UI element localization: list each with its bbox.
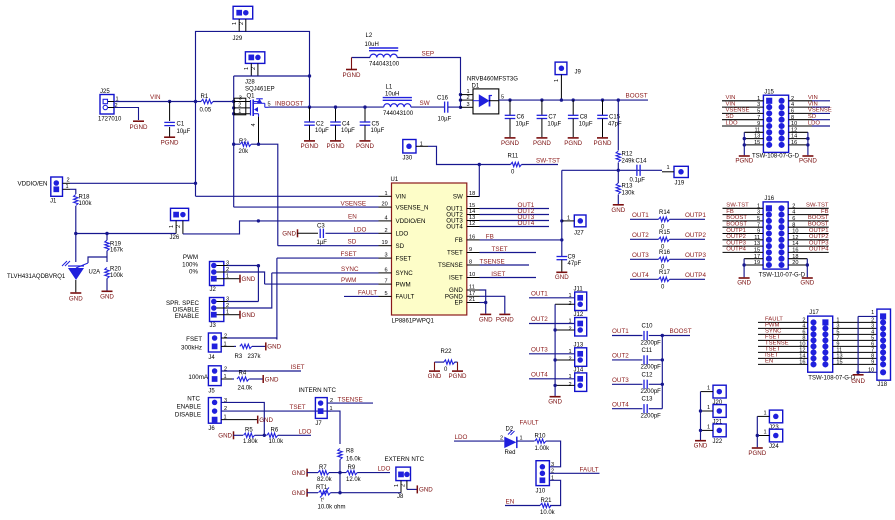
svg-text:PGND: PGND bbox=[327, 143, 345, 150]
svg-text:1: 1 bbox=[567, 216, 570, 222]
svg-text:1.00k: 1.00k bbox=[535, 446, 551, 452]
svg-text:VSENSE: VSENSE bbox=[341, 200, 367, 207]
svg-text:FSET: FSET bbox=[341, 251, 357, 258]
svg-text:PWM: PWM bbox=[183, 254, 198, 261]
svg-text:3: 3 bbox=[551, 462, 554, 468]
svg-text:GND: GND bbox=[100, 294, 114, 301]
svg-text:INTERN NTC: INTERN NTC bbox=[299, 387, 337, 394]
svg-text:FSET: FSET bbox=[186, 336, 202, 343]
svg-text:1727010: 1727010 bbox=[98, 117, 122, 123]
svg-text:BOOST: BOOST bbox=[808, 215, 829, 221]
svg-text:ISET: ISET bbox=[291, 364, 305, 371]
svg-text:J25: J25 bbox=[100, 89, 110, 95]
svg-text:J8: J8 bbox=[397, 494, 404, 500]
svg-text:10.0k: 10.0k bbox=[540, 510, 556, 516]
svg-text:OUT4: OUT4 bbox=[612, 401, 629, 408]
svg-text:R22: R22 bbox=[441, 349, 453, 355]
svg-text:TSET: TSET bbox=[492, 246, 508, 253]
svg-text:LDO: LDO bbox=[396, 231, 409, 238]
svg-text:t°: t° bbox=[321, 498, 324, 504]
svg-text:7: 7 bbox=[385, 279, 388, 285]
svg-text:C8: C8 bbox=[580, 115, 588, 121]
svg-text:L1: L1 bbox=[386, 85, 393, 91]
svg-text:FAULT: FAULT bbox=[580, 466, 599, 473]
svg-text:BOOST: BOOST bbox=[808, 222, 829, 228]
svg-text:LDO: LDO bbox=[726, 120, 739, 126]
svg-text:PWM: PWM bbox=[396, 281, 411, 288]
svg-text:OUTP2: OUTP2 bbox=[809, 234, 829, 240]
svg-text:PGND: PGND bbox=[501, 140, 519, 147]
svg-text:VIN: VIN bbox=[726, 101, 736, 107]
svg-text:R8: R8 bbox=[346, 449, 354, 455]
svg-text:SD: SD bbox=[808, 114, 816, 120]
svg-text:GND: GND bbox=[555, 274, 569, 281]
svg-text:J2: J2 bbox=[210, 287, 217, 293]
svg-text:U2A: U2A bbox=[89, 270, 101, 276]
svg-text:R13: R13 bbox=[622, 184, 634, 190]
svg-text:GND: GND bbox=[428, 373, 442, 380]
svg-text:20k: 20k bbox=[239, 149, 250, 155]
svg-text:R14: R14 bbox=[659, 210, 671, 216]
svg-text:LP8861PWPQ1: LP8861PWPQ1 bbox=[392, 319, 435, 325]
svg-text:BOOST: BOOST bbox=[670, 328, 692, 335]
svg-text:R20: R20 bbox=[110, 267, 122, 273]
svg-text:EN: EN bbox=[348, 214, 357, 221]
svg-text:PGND: PGND bbox=[130, 124, 148, 131]
svg-text:10.0k ohm: 10.0k ohm bbox=[318, 505, 346, 511]
svg-text:10uH: 10uH bbox=[385, 92, 399, 98]
svg-text:10.0k: 10.0k bbox=[269, 439, 285, 445]
svg-text:BOOST: BOOST bbox=[726, 215, 747, 221]
svg-text:OUT2: OUT2 bbox=[632, 232, 649, 239]
svg-text:2200pF: 2200pF bbox=[641, 414, 662, 420]
svg-text:47pF: 47pF bbox=[568, 261, 582, 267]
svg-text:C7: C7 bbox=[548, 115, 556, 121]
svg-text:J12: J12 bbox=[574, 312, 584, 318]
svg-text:100k: 100k bbox=[79, 201, 93, 207]
svg-text:0%: 0% bbox=[189, 269, 198, 276]
svg-text:R19: R19 bbox=[110, 241, 122, 247]
svg-text:4: 4 bbox=[251, 123, 257, 126]
svg-text:PGND: PGND bbox=[799, 158, 817, 165]
svg-text:1: 1 bbox=[244, 67, 250, 70]
svg-text:GND: GND bbox=[694, 443, 708, 450]
svg-text:J7: J7 bbox=[315, 421, 322, 427]
svg-text:OUT1: OUT1 bbox=[632, 212, 649, 219]
svg-text:SEP: SEP bbox=[422, 50, 435, 57]
svg-text:LDO: LDO bbox=[455, 434, 468, 441]
svg-text:GND: GND bbox=[242, 276, 256, 283]
svg-text:2: 2 bbox=[239, 22, 245, 25]
svg-text:1: 1 bbox=[420, 141, 423, 147]
svg-text:FB: FB bbox=[455, 237, 463, 244]
svg-text:R9: R9 bbox=[348, 465, 356, 471]
svg-text:OUTP3: OUTP3 bbox=[809, 240, 829, 246]
svg-text:744043100: 744043100 bbox=[369, 62, 400, 68]
svg-text:EXTERN NTC: EXTERN NTC bbox=[385, 456, 425, 463]
svg-text:J6: J6 bbox=[208, 426, 215, 432]
svg-text:SD: SD bbox=[348, 239, 357, 246]
svg-text:18: 18 bbox=[469, 191, 475, 197]
svg-text:TLVH431AQDBVRQ1: TLVH431AQDBVRQ1 bbox=[7, 274, 66, 280]
svg-text:OUT1: OUT1 bbox=[612, 328, 629, 335]
svg-text:J28: J28 bbox=[245, 80, 255, 86]
svg-text:0.05: 0.05 bbox=[200, 108, 212, 114]
svg-text:100%: 100% bbox=[182, 262, 198, 269]
svg-text:19: 19 bbox=[382, 240, 388, 246]
svg-text:82.0k: 82.0k bbox=[317, 477, 333, 483]
svg-text:OUTP4: OUTP4 bbox=[685, 272, 706, 279]
svg-text:10: 10 bbox=[469, 272, 475, 278]
svg-text:PGND: PGND bbox=[533, 140, 551, 147]
svg-text:OUTP1: OUTP1 bbox=[726, 228, 746, 234]
svg-text:R4: R4 bbox=[239, 371, 247, 377]
svg-text:11: 11 bbox=[469, 285, 475, 291]
svg-text:GND: GND bbox=[69, 296, 83, 303]
svg-text:SD: SD bbox=[726, 114, 734, 120]
svg-text:J3: J3 bbox=[210, 323, 217, 329]
svg-text:OUT3: OUT3 bbox=[531, 346, 548, 353]
svg-text:10µF: 10µF bbox=[341, 128, 355, 134]
svg-text:10µF: 10µF bbox=[438, 117, 452, 123]
svg-text:EN: EN bbox=[765, 359, 773, 365]
svg-text:GND: GND bbox=[267, 344, 281, 351]
svg-text:1: 1 bbox=[554, 79, 560, 82]
svg-text:1: 1 bbox=[238, 109, 241, 115]
svg-text:C2: C2 bbox=[316, 121, 324, 127]
svg-text:4: 4 bbox=[385, 215, 388, 221]
svg-text:R5: R5 bbox=[245, 428, 253, 434]
svg-text:GND: GND bbox=[737, 280, 751, 287]
svg-text:PWM: PWM bbox=[341, 277, 356, 284]
svg-text:20: 20 bbox=[382, 202, 388, 208]
svg-text:9: 9 bbox=[871, 360, 874, 366]
svg-text:3: 3 bbox=[239, 96, 242, 102]
svg-text:C1: C1 bbox=[177, 122, 185, 128]
svg-text:SQJ461EP: SQJ461EP bbox=[245, 87, 275, 93]
svg-text:J13: J13 bbox=[574, 342, 584, 348]
svg-text:FB: FB bbox=[821, 209, 829, 215]
svg-text:J10: J10 bbox=[536, 489, 546, 495]
svg-text:2: 2 bbox=[400, 484, 406, 487]
svg-text:PGND: PGND bbox=[301, 143, 319, 150]
svg-text:2200pF: 2200pF bbox=[641, 389, 662, 395]
svg-text:DISABLE: DISABLE bbox=[175, 412, 201, 419]
svg-text:PGND: PGND bbox=[356, 143, 374, 150]
svg-text:21: 21 bbox=[469, 297, 475, 303]
svg-text:SW: SW bbox=[420, 100, 430, 107]
svg-text:16.0k: 16.0k bbox=[346, 457, 362, 463]
svg-text:10µF: 10µF bbox=[547, 121, 561, 127]
svg-text:GND: GND bbox=[259, 417, 273, 424]
svg-text:SW: SW bbox=[453, 194, 463, 201]
svg-text:GND: GND bbox=[292, 490, 306, 497]
svg-text:NTC: NTC bbox=[187, 396, 200, 403]
svg-text:1: 1 bbox=[707, 425, 710, 431]
svg-text:5: 5 bbox=[385, 291, 388, 297]
svg-text:R3: R3 bbox=[235, 354, 243, 360]
svg-text:J14: J14 bbox=[574, 367, 584, 373]
svg-text:PGND: PGND bbox=[735, 158, 753, 165]
svg-text:ENABLE: ENABLE bbox=[175, 313, 199, 320]
svg-text:VIN: VIN bbox=[808, 101, 818, 107]
svg-text:LDO: LDO bbox=[808, 120, 821, 126]
svg-text:SYNC: SYNC bbox=[341, 266, 359, 273]
svg-text:GND: GND bbox=[282, 231, 296, 238]
svg-text:SD: SD bbox=[396, 243, 405, 250]
svg-text:2: 2 bbox=[467, 95, 470, 101]
svg-text:OUTP1: OUTP1 bbox=[685, 212, 706, 219]
svg-text:167k: 167k bbox=[110, 248, 124, 254]
svg-text:10µF: 10µF bbox=[371, 128, 385, 134]
svg-text:3: 3 bbox=[467, 102, 470, 108]
svg-text:OUT4: OUT4 bbox=[632, 272, 649, 279]
svg-text:16: 16 bbox=[469, 234, 475, 240]
svg-text:2200pF: 2200pF bbox=[641, 365, 662, 371]
svg-text:R16: R16 bbox=[659, 250, 671, 256]
svg-text:1: 1 bbox=[232, 22, 238, 25]
svg-text:C6: C6 bbox=[517, 115, 525, 121]
svg-text:OUTP4: OUTP4 bbox=[809, 247, 829, 253]
svg-text:FAULT: FAULT bbox=[396, 294, 415, 301]
svg-text:SW-TST: SW-TST bbox=[726, 203, 749, 209]
svg-text:J22: J22 bbox=[713, 439, 723, 445]
svg-text:VDDIO/EN: VDDIO/EN bbox=[18, 181, 48, 188]
svg-text:OUT2: OUT2 bbox=[612, 353, 629, 360]
svg-text:FB: FB bbox=[726, 209, 734, 215]
svg-text:OUT4: OUT4 bbox=[446, 224, 463, 231]
svg-text:BOOST: BOOST bbox=[726, 222, 747, 228]
svg-text:1: 1 bbox=[394, 484, 400, 487]
svg-text:J19: J19 bbox=[675, 181, 685, 187]
svg-text:0.1µF: 0.1µF bbox=[630, 178, 646, 184]
svg-text:J11: J11 bbox=[574, 287, 584, 293]
svg-text:1: 1 bbox=[764, 430, 767, 436]
svg-text:ENABLE: ENABLE bbox=[177, 404, 201, 411]
svg-text:10µF: 10µF bbox=[177, 129, 191, 135]
svg-text:J29: J29 bbox=[233, 36, 243, 42]
svg-text:TSW-108-07-G-D: TSW-108-07-G-D bbox=[752, 153, 800, 159]
svg-text:TSENSE: TSENSE bbox=[480, 259, 505, 266]
svg-text:100mA: 100mA bbox=[188, 374, 208, 381]
svg-text:130k: 130k bbox=[622, 190, 636, 196]
svg-text:J18: J18 bbox=[877, 382, 887, 388]
svg-text:1: 1 bbox=[385, 191, 388, 197]
svg-text:PGND: PGND bbox=[161, 140, 179, 147]
svg-text:2200pF: 2200pF bbox=[641, 340, 662, 346]
svg-text:10uH: 10uH bbox=[365, 42, 379, 48]
svg-text:100k: 100k bbox=[110, 273, 124, 279]
svg-text:GND: GND bbox=[479, 317, 493, 324]
svg-text:C9: C9 bbox=[568, 255, 576, 261]
svg-text:ISET: ISET bbox=[449, 275, 463, 282]
svg-text:OUTP2: OUTP2 bbox=[726, 234, 746, 240]
svg-text:TSW-108-07-G-D: TSW-108-07-G-D bbox=[808, 376, 856, 382]
svg-text:OUT4: OUT4 bbox=[531, 371, 548, 378]
svg-text:J9: J9 bbox=[575, 70, 582, 76]
svg-text:PGND: PGND bbox=[748, 450, 766, 457]
svg-text:R18: R18 bbox=[79, 195, 91, 201]
svg-text:VIN: VIN bbox=[808, 95, 818, 101]
svg-text:10µF: 10µF bbox=[579, 121, 593, 127]
svg-text:12: 12 bbox=[469, 221, 475, 227]
svg-text:2: 2 bbox=[385, 228, 388, 234]
svg-text:TSENSE: TSENSE bbox=[438, 262, 463, 269]
svg-text:OUT4: OUT4 bbox=[518, 220, 535, 227]
svg-text:3: 3 bbox=[385, 253, 388, 259]
svg-text:300kHz: 300kHz bbox=[181, 345, 202, 352]
svg-text:C15: C15 bbox=[609, 115, 621, 121]
svg-text:8: 8 bbox=[469, 260, 472, 266]
svg-text:GND: GND bbox=[851, 378, 865, 385]
svg-text:OUT1: OUT1 bbox=[531, 290, 548, 297]
svg-text:10µF: 10µF bbox=[315, 128, 329, 134]
svg-text:47pF: 47pF bbox=[608, 121, 622, 127]
svg-text:J17: J17 bbox=[809, 310, 819, 316]
svg-text:OUTP3: OUTP3 bbox=[726, 240, 746, 246]
svg-text:Q1: Q1 bbox=[247, 94, 256, 100]
svg-text:R7: R7 bbox=[319, 465, 327, 471]
svg-text:OUTP3: OUTP3 bbox=[685, 252, 706, 259]
svg-text:249k: 249k bbox=[622, 158, 636, 164]
svg-text:D2: D2 bbox=[506, 427, 514, 433]
svg-text:C12: C12 bbox=[642, 372, 654, 378]
svg-text:GND: GND bbox=[218, 433, 232, 440]
svg-text:INBOOST: INBOOST bbox=[275, 100, 303, 107]
svg-text:1µF: 1µF bbox=[317, 240, 328, 246]
svg-text:U1: U1 bbox=[391, 177, 399, 183]
svg-text:OUT3: OUT3 bbox=[632, 252, 649, 259]
svg-text:SYNC: SYNC bbox=[396, 270, 414, 277]
svg-text:ISET: ISET bbox=[491, 271, 505, 278]
svg-text:R17: R17 bbox=[659, 270, 671, 276]
svg-text:VSENSE: VSENSE bbox=[726, 108, 750, 114]
svg-text:FAULT: FAULT bbox=[520, 420, 539, 427]
svg-text:237k: 237k bbox=[248, 354, 262, 360]
svg-text:R21: R21 bbox=[541, 498, 553, 504]
svg-text:2: 2 bbox=[251, 67, 257, 70]
svg-text:J23: J23 bbox=[769, 425, 779, 431]
svg-text:J30: J30 bbox=[403, 156, 413, 162]
svg-text:C10: C10 bbox=[642, 324, 654, 330]
svg-text:OUTP1: OUTP1 bbox=[809, 228, 829, 234]
svg-text:VSENSE_N: VSENSE_N bbox=[396, 204, 429, 211]
svg-text:R6: R6 bbox=[271, 428, 279, 434]
svg-text:OUTP4: OUTP4 bbox=[726, 247, 746, 253]
svg-text:PGND: PGND bbox=[343, 72, 361, 79]
svg-text:TSW-110-07-G-D: TSW-110-07-G-D bbox=[759, 272, 806, 278]
svg-text:2: 2 bbox=[500, 436, 503, 442]
svg-text:GND: GND bbox=[548, 399, 562, 406]
svg-text:EN: EN bbox=[506, 499, 515, 506]
svg-text:PGND: PGND bbox=[496, 317, 514, 324]
svg-text:2: 2 bbox=[67, 178, 70, 184]
svg-text:1: 1 bbox=[667, 165, 670, 171]
svg-text:1: 1 bbox=[871, 310, 874, 316]
svg-text:GND: GND bbox=[292, 470, 306, 477]
svg-text:J26: J26 bbox=[170, 235, 180, 241]
svg-text:VIN: VIN bbox=[150, 94, 161, 101]
svg-text:R11: R11 bbox=[508, 153, 519, 159]
svg-text:1: 1 bbox=[707, 405, 710, 411]
svg-text:10µF: 10µF bbox=[516, 121, 530, 127]
svg-text:R12: R12 bbox=[622, 152, 634, 158]
svg-text:J15: J15 bbox=[764, 89, 774, 95]
svg-text:J5: J5 bbox=[208, 389, 215, 395]
svg-text:VDDIO/EN: VDDIO/EN bbox=[396, 218, 426, 225]
svg-text:L2: L2 bbox=[366, 33, 373, 39]
svg-text:GND: GND bbox=[265, 376, 279, 383]
svg-text:FSET: FSET bbox=[396, 255, 412, 262]
svg-text:1: 1 bbox=[764, 411, 767, 417]
svg-text:2: 2 bbox=[176, 225, 182, 228]
svg-text:Red: Red bbox=[505, 450, 516, 456]
svg-text:12.0k: 12.0k bbox=[346, 477, 362, 483]
svg-text:J16: J16 bbox=[764, 196, 774, 202]
svg-text:BOOST: BOOST bbox=[626, 92, 648, 99]
svg-text:24.0k: 24.0k bbox=[238, 386, 254, 392]
svg-text:PGND: PGND bbox=[564, 140, 582, 147]
svg-text:TSENSE: TSENSE bbox=[338, 397, 363, 404]
svg-text:C11: C11 bbox=[642, 348, 653, 354]
svg-text:J21: J21 bbox=[713, 420, 723, 426]
svg-text:NRVB460MFST3G: NRVB460MFST3G bbox=[467, 77, 518, 83]
svg-text:RT1: RT1 bbox=[316, 485, 328, 491]
svg-text:OUT3: OUT3 bbox=[612, 377, 629, 384]
svg-text:FAULT: FAULT bbox=[358, 289, 377, 296]
svg-text:C16: C16 bbox=[437, 96, 449, 102]
svg-text:TSET: TSET bbox=[290, 404, 306, 411]
svg-text:C5: C5 bbox=[372, 121, 380, 127]
svg-text:J27: J27 bbox=[574, 231, 584, 237]
svg-text:R15: R15 bbox=[659, 230, 671, 236]
svg-text:TSET: TSET bbox=[447, 250, 463, 257]
svg-text:R1: R1 bbox=[201, 94, 209, 100]
svg-text:1: 1 bbox=[169, 225, 175, 228]
svg-text:744043100: 744043100 bbox=[383, 111, 414, 117]
svg-text:SW-TST: SW-TST bbox=[806, 203, 829, 209]
svg-text:1.80k: 1.80k bbox=[243, 439, 259, 445]
svg-text:OUT2: OUT2 bbox=[531, 316, 548, 323]
svg-text:FB: FB bbox=[486, 233, 494, 240]
svg-text:EP: EP bbox=[455, 300, 463, 307]
svg-text:GND: GND bbox=[242, 312, 256, 319]
svg-text:LDO: LDO bbox=[354, 226, 367, 233]
svg-text:J1: J1 bbox=[50, 199, 57, 205]
svg-text:VIN: VIN bbox=[396, 194, 406, 201]
svg-text:SW-TST: SW-TST bbox=[536, 157, 560, 164]
svg-text:GND: GND bbox=[800, 280, 814, 287]
svg-text:LDO: LDO bbox=[299, 428, 312, 435]
svg-text:17: 17 bbox=[469, 291, 475, 297]
svg-text:1: 1 bbox=[707, 386, 710, 392]
svg-text:GND: GND bbox=[611, 207, 625, 214]
svg-text:C13: C13 bbox=[642, 397, 654, 403]
svg-text:C4: C4 bbox=[342, 121, 350, 127]
svg-text:9: 9 bbox=[469, 247, 472, 253]
svg-text:VSENSE: VSENSE bbox=[808, 108, 832, 114]
svg-text:PGND: PGND bbox=[594, 140, 612, 147]
svg-text:J24: J24 bbox=[769, 444, 779, 450]
svg-text:VIN: VIN bbox=[726, 95, 736, 101]
svg-text:PGND: PGND bbox=[449, 373, 467, 380]
svg-text:6: 6 bbox=[385, 267, 388, 273]
svg-text:J20: J20 bbox=[713, 400, 723, 406]
svg-text:C3: C3 bbox=[317, 223, 325, 229]
svg-text:J4: J4 bbox=[208, 355, 215, 361]
svg-text:GND: GND bbox=[419, 487, 433, 494]
svg-text:C14: C14 bbox=[636, 158, 648, 164]
